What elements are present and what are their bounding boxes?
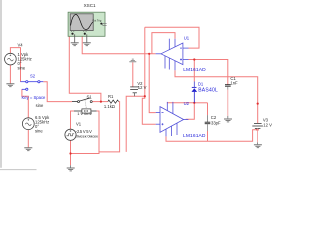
svg-text:1.1kΩ: 1.1kΩ bbox=[104, 104, 115, 109]
svg-text:XSC1: XSC1 bbox=[84, 3, 96, 8]
svg-text:BAS40L: BAS40L bbox=[198, 87, 218, 93]
svg-text:33pF: 33pF bbox=[211, 120, 221, 125]
svg-text:U1: U1 bbox=[184, 36, 190, 41]
svg-text:S1: S1 bbox=[87, 94, 93, 99]
svg-text:0мсек 0мсек: 0мсек 0мсек bbox=[76, 134, 98, 139]
svg-text:Ext Trig: Ext Trig bbox=[93, 19, 102, 23]
svg-text:12 V: 12 V bbox=[263, 122, 272, 127]
svg-text:D1: D1 bbox=[198, 82, 204, 87]
svg-text:Key = Space: Key = Space bbox=[22, 95, 47, 100]
svg-text:1nF: 1nF bbox=[230, 81, 238, 86]
svg-text:12 V: 12 V bbox=[138, 85, 147, 90]
svg-text:V4: V4 bbox=[18, 42, 24, 47]
svg-text:C2: C2 bbox=[211, 115, 217, 120]
svg-text:sine: sine bbox=[35, 129, 43, 134]
svg-text:R1: R1 bbox=[108, 94, 114, 99]
svg-text:V1: V1 bbox=[76, 121, 82, 126]
svg-text:LM161AD: LM161AD bbox=[183, 133, 206, 139]
svg-text:U2: U2 bbox=[184, 101, 190, 106]
svg-text:sine: sine bbox=[36, 103, 44, 108]
svg-text:S2: S2 bbox=[30, 74, 36, 79]
svg-text:sine: sine bbox=[18, 66, 26, 71]
svg-text:1 V 0mV: 1 V 0mV bbox=[77, 111, 92, 116]
svg-text:LM161AD: LM161AD bbox=[183, 67, 206, 73]
